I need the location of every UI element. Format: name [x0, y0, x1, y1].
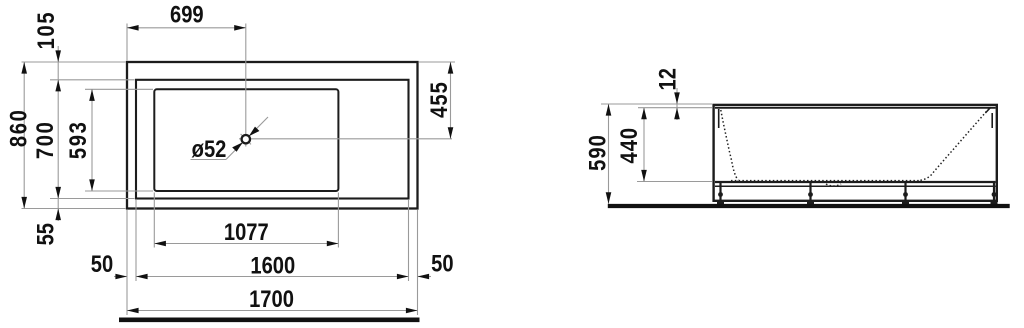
svg-text:50: 50: [431, 250, 453, 277]
svg-text:1077: 1077: [224, 218, 269, 245]
dim lines: [609, 88, 678, 204]
svg-text:440: 440: [615, 127, 642, 164]
svg-text:50: 50: [91, 251, 113, 278]
svg-text:593: 593: [64, 120, 91, 159]
ext lines: [601, 104, 712, 182]
dotted interior: [721, 109, 989, 187]
arrowheads: [21, 25, 453, 313]
inner rim line (12): [715, 107, 996, 109]
svg-text:700: 700: [31, 120, 58, 159]
basin rectangle 1077x593: [154, 89, 338, 191]
shell bottom: [715, 181, 996, 183]
dimension lines (thin): [24, 28, 450, 311]
svg-text:1600: 1600: [250, 252, 295, 279]
feet: [717, 183, 998, 204]
svg-text:590: 590: [584, 134, 611, 171]
drain leader arrows: [232, 142, 243, 152]
svg-text:1700: 1700: [249, 285, 294, 312]
drain circle: [242, 135, 250, 143]
inner wall verticals: [718, 109, 720, 128]
thick base bar below plan: [119, 317, 420, 322]
extension lines (thin): [22, 24, 456, 316]
svg-text:860: 860: [5, 108, 32, 147]
arrowheads: [606, 92, 680, 203]
svg-text:12: 12: [654, 68, 681, 90]
outer tub rectangle (plan): [127, 62, 418, 209]
svg-text:699: 699: [170, 1, 204, 28]
inner rim rectangle 1600x700: [136, 80, 409, 199]
svg-text:455: 455: [426, 81, 453, 118]
svg-text:105: 105: [32, 11, 59, 50]
drain leader diagonal: [191, 159, 227, 161]
svg-text:ø52: ø52: [192, 136, 227, 163]
frame top rail: [715, 185, 996, 187]
texts: [584, 68, 681, 171]
floor line: [608, 204, 1010, 208]
side view outer: [714, 105, 997, 201]
svg-text:55: 55: [32, 223, 59, 245]
